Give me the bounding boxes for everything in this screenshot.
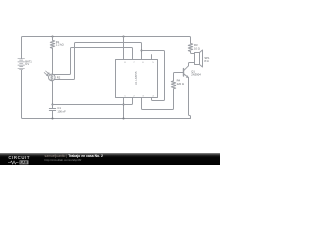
node junction C1 bottom rail (51, 117, 53, 119)
svg-text:8 Ω: 8 Ω (204, 59, 208, 63)
light arrows (46, 71, 50, 74)
wire battery bottom lead / left rail (22, 70, 23, 119)
svg-text:10 Ω: 10 Ω (194, 46, 200, 50)
svg-text:220 Ω: 220 Ω (177, 82, 184, 86)
speaker SP1 (195, 50, 203, 67)
label SP1 value (204, 56, 210, 63)
label R3 value (194, 43, 200, 50)
svg-text:C1: C1 (57, 106, 61, 110)
op-amp U1 555 timer box (116, 60, 158, 98)
wire C1 node to pin 1 (53, 104, 124, 106)
footer text line 1 (45, 154, 103, 158)
resistor R3 (188, 38, 192, 52)
svg-text:LAB: LAB (21, 161, 28, 165)
capacitor C1 (49, 109, 55, 111)
node junction R1 top (51, 35, 53, 37)
wire photoresistor top tap to IC pin 7 (54, 48, 133, 75)
wire pin 5 stub (151, 55, 153, 60)
wire R3 to speaker (191, 51, 195, 53)
wire pin 2 to node (124, 98, 133, 105)
pin numbers bottom (124, 95, 154, 97)
svg-text:2.2 kΩ: 2.2 kΩ (56, 43, 64, 47)
svg-text:100 nF: 100 nF (57, 110, 66, 114)
svg-text:U1 LM555: U1 LM555 (134, 71, 138, 85)
wire pin 8 to top rail (123, 37, 125, 60)
label R4 value (177, 79, 184, 86)
resistor R1 (50, 40, 54, 48)
wire R1 top lead (52, 37, 54, 41)
wire battery top lead (21, 38, 23, 59)
label R2 (57, 75, 61, 79)
wire collector to speaker (189, 63, 195, 66)
logo CircuitLab (8, 156, 30, 160)
svg-text:8: 8 (124, 62, 126, 64)
wire emitter to ground rail (189, 78, 191, 119)
wire pin 3 output to R4 (142, 89, 174, 110)
label C1 value (57, 106, 66, 113)
label R1 value (56, 40, 64, 47)
wire C1 bottom lead (52, 111, 54, 119)
svg-text:9 V: 9 V (25, 62, 29, 66)
svg-text:5: 5 (152, 62, 154, 64)
label Q1 value (191, 69, 201, 76)
svg-text:2N3904: 2N3904 (191, 72, 201, 76)
node junction pin 1 rail (122, 117, 124, 119)
svg-text:R2: R2 (57, 75, 61, 79)
label U1 inner text (134, 71, 138, 85)
transistor Q1 (184, 66, 189, 78)
node junction THR tap (141, 50, 143, 52)
node junction C1 top (51, 103, 53, 105)
wire C1 top lead (52, 105, 54, 109)
svg-text:6: 6 (142, 62, 144, 64)
wire R4 to base (174, 73, 184, 78)
footer text line 2 (45, 158, 82, 162)
wire photoresistor bottom lead (51, 81, 54, 105)
wire pin 6 to pin 4 loop (142, 51, 165, 101)
label BAT1 value (25, 59, 32, 66)
wire photoresistor bottom tap to IC pin 6 (54, 43, 141, 80)
svg-text:7: 7 (133, 62, 135, 64)
pin numbers top (124, 62, 154, 64)
wire top rail (22, 37, 191, 38)
wire R1 to photoresistor (52, 48, 54, 74)
photoresistor R2 (44, 71, 55, 81)
wire pin 1 to ground rail (123, 98, 125, 119)
footer bar (0, 153, 220, 165)
battery BAT1 (18, 59, 25, 70)
wire bottom rail (23, 118, 191, 119)
node junction VCC pin 8 (122, 35, 124, 37)
resistor R4 (171, 78, 175, 89)
node junction pin 1 trigger (122, 103, 124, 105)
